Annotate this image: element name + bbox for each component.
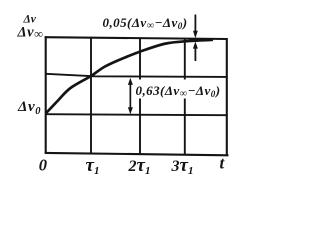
middle double-headed arrow (0.63 span) <box>128 78 133 115</box>
delta-nu-0 level line <box>46 114 227 115</box>
top line (delta-nu-infinity asymptote) <box>45 37 228 39</box>
svg-text:0,63(Δv∞−Δv0): 0,63(Δv∞−Δv0) <box>136 83 221 100</box>
svg-text:t: t <box>220 154 226 173</box>
svg-text:3τ1: 3τ1 <box>171 155 194 177</box>
y-axis <box>45 36 47 153</box>
grid line at 2tau1 <box>139 38 141 154</box>
white backing for 0,63 label (breaks grid lines) <box>134 80 220 99</box>
svg-text:τ1: τ1 <box>86 155 100 177</box>
right frame line <box>226 38 228 155</box>
exponential response curve <box>46 40 213 114</box>
upper annotation arrow (down to asymptote) <box>193 15 198 39</box>
grid line at tau1 <box>90 38 92 154</box>
x-axis <box>45 153 229 155</box>
grid line at 3tau1 <box>184 39 186 155</box>
svg-text:0,05(Δv∞−Δv0): 0,05(Δv∞−Δv0) <box>103 15 188 32</box>
svg-text:Δv∞: Δv∞ <box>17 25 44 41</box>
lower annotation arrow (up to curve) <box>193 42 198 62</box>
svg-text:Δv0: Δv0 <box>17 99 41 117</box>
svg-text:0: 0 <box>39 155 47 174</box>
svg-text:2τ1: 2τ1 <box>128 155 151 177</box>
0.63 level line <box>46 74 227 77</box>
